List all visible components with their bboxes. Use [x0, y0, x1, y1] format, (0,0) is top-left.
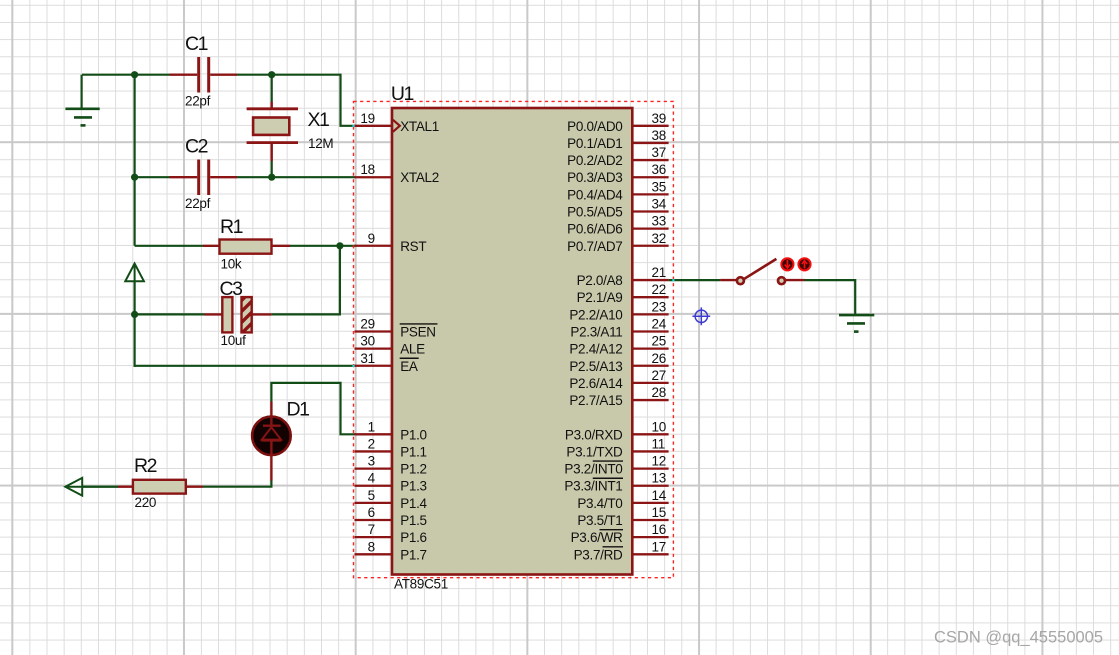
ground (right)	[839, 314, 874, 317]
pin 32 P0.7/AD7	[632, 245, 668, 247]
svg-text:C3: C3	[220, 278, 243, 300]
output terminal (left arrow)	[65, 478, 82, 496]
svg-text:P1.2: P1.2	[400, 462, 427, 477]
svg-text:12: 12	[652, 454, 666, 469]
svg-text:22pf: 22pf	[185, 94, 211, 109]
pin 33 P0.6/AD6	[632, 227, 668, 229]
crystal X1	[271, 102, 273, 109]
pin 35 P0.4/AD4	[632, 193, 668, 195]
switch SW1	[720, 279, 736, 281]
pin 31 EA	[355, 365, 393, 367]
svg-text:10uf: 10uf	[221, 333, 247, 348]
pin 34 P0.5/AD5	[632, 210, 668, 212]
wire corner to XTAL1 pin	[341, 74, 356, 126]
pin 17 P3.7/RD	[632, 553, 668, 555]
wire RST junction drop	[271, 246, 340, 315]
junction node D	[268, 174, 275, 181]
svg-text:24: 24	[652, 316, 667, 331]
wire C3 net left (y=314.4)	[135, 313, 205, 315]
junction node A	[131, 71, 138, 78]
svg-text:C1: C1	[185, 33, 208, 55]
svg-text:P3.2/INT0: P3.2/INT0	[564, 462, 622, 477]
pin 2 P1.1	[355, 450, 393, 452]
svg-text:14: 14	[652, 488, 667, 503]
wire switch to ground	[805, 280, 856, 315]
svg-text:XTAL1: XTAL1	[400, 119, 439, 134]
svg-text:R2: R2	[134, 455, 157, 477]
svg-text:P1.5: P1.5	[400, 513, 427, 528]
svg-text:P1.0: P1.0	[400, 427, 427, 442]
svg-text:P3.5/T1: P3.5/T1	[577, 513, 622, 528]
svg-text:P3.3/INT1: P3.3/INT1	[564, 479, 622, 494]
wire XTAL2 net (y=177.5)	[135, 176, 170, 178]
svg-text:35: 35	[652, 179, 666, 194]
ground (left)	[80, 75, 82, 109]
svg-text:X1: X1	[308, 109, 330, 131]
junction node C	[131, 174, 138, 181]
svg-text:33: 33	[652, 214, 666, 229]
pin 3 P1.2	[355, 467, 393, 469]
svg-text:P2.3/A11: P2.3/A11	[570, 324, 622, 339]
pin 18 XTAL2	[355, 176, 393, 178]
svg-text:P0.3/AD3: P0.3/AD3	[567, 170, 622, 185]
svg-text:4: 4	[368, 471, 376, 486]
svg-text:21: 21	[652, 265, 666, 280]
wire crossing marks	[352, 125, 354, 127]
svg-text:R1: R1	[220, 216, 243, 238]
pin 30 ALE	[355, 347, 393, 349]
switch actuator (up arrow)	[798, 258, 810, 270]
wire crystal top drop	[271, 75, 273, 102]
resistor R1	[203, 245, 220, 247]
svg-text:P2.5/A13: P2.5/A13	[569, 359, 622, 374]
pin 24 P2.3/A11	[632, 330, 668, 332]
pin 11 P3.1/TXD	[632, 450, 668, 452]
svg-text:P1.7: P1.7	[400, 547, 427, 562]
svg-text:19: 19	[360, 111, 374, 126]
capacitor C2	[170, 176, 198, 178]
selection box (red dashed)	[354, 101, 674, 577]
wire EA net (y=366)	[134, 365, 356, 367]
wire crystal bottom drop	[271, 161, 273, 177]
svg-text:13: 13	[652, 471, 666, 486]
wire P1.0 to D1	[271, 383, 355, 434]
svg-text:D1: D1	[287, 399, 310, 421]
svg-text:22pf: 22pf	[185, 196, 211, 211]
svg-text:P0.7/AD7: P0.7/AD7	[567, 239, 622, 254]
svg-text:P3.6/WR: P3.6/WR	[571, 530, 623, 545]
capacitor C3 (electrolytic)	[205, 313, 223, 315]
pin 19 XTAL1	[355, 125, 393, 127]
svg-text:31: 31	[360, 351, 374, 366]
pin 37 P0.2/AD2	[632, 159, 668, 161]
svg-text:P0.1/AD1: P0.1/AD1	[567, 136, 622, 151]
svg-text:P3.1/TXD: P3.1/TXD	[566, 444, 623, 459]
wire power stem	[134, 281, 136, 367]
svg-text:25: 25	[652, 334, 666, 349]
svg-text:11: 11	[652, 436, 665, 451]
pin 39 P0.0/AD0	[632, 125, 668, 127]
wire vertical left bus x=134.6	[134, 74, 136, 246]
svg-text:22: 22	[652, 282, 666, 297]
svg-text:39: 39	[652, 111, 666, 126]
svg-text:P1.4: P1.4	[400, 496, 427, 511]
svg-text:ALE: ALE	[400, 342, 425, 357]
svg-text:P0.6/AD6: P0.6/AD6	[567, 222, 622, 237]
svg-text:1: 1	[368, 419, 375, 434]
svg-text:P1.6: P1.6	[400, 530, 427, 545]
pin 21 P2.0/A8	[632, 279, 668, 281]
pin 10 P3.0/RXD	[632, 433, 668, 435]
svg-text:P3.0/RXD: P3.0/RXD	[565, 427, 623, 442]
svg-text:7: 7	[368, 522, 375, 537]
IC U1 body (AT89C51 microcontroller)	[392, 108, 632, 575]
svg-text:15: 15	[652, 505, 666, 520]
svg-text:P2.2/A10: P2.2/A10	[569, 307, 622, 322]
svg-text:PSEN: PSEN	[400, 324, 436, 339]
pin 13 P3.3/INT1	[632, 485, 668, 487]
capacitor C1	[170, 73, 198, 75]
svg-text:10: 10	[652, 419, 666, 434]
svg-text:P1.3: P1.3	[400, 479, 427, 494]
pin 16 P3.6/WR	[632, 536, 668, 538]
svg-text:XTAL2: XTAL2	[400, 170, 439, 185]
pin 7 P1.6	[355, 536, 393, 538]
svg-text:36: 36	[652, 162, 666, 177]
svg-text:P3.4/T0: P3.4/T0	[577, 496, 622, 511]
pin 15 P3.5/T1	[632, 519, 668, 521]
svg-text:30: 30	[360, 334, 374, 349]
svg-text:2: 2	[368, 436, 375, 451]
junction node E	[336, 242, 343, 249]
svg-text:23: 23	[652, 299, 666, 314]
svg-text:6: 6	[368, 505, 375, 520]
wire RST net (y=246)	[135, 245, 203, 247]
pin 25 P2.4/A12	[632, 347, 668, 349]
LED D1	[252, 417, 291, 456]
pin 26 P2.5/A13	[632, 365, 668, 367]
svg-text:P0.4/AD4: P0.4/AD4	[567, 187, 623, 202]
svg-text:P2.4/A12: P2.4/A12	[569, 342, 622, 357]
pin 22 P2.1/A9	[632, 296, 668, 298]
svg-text:5: 5	[368, 488, 375, 503]
svg-text:C2: C2	[185, 135, 208, 157]
svg-text:CSDN @qq_45550005: CSDN @qq_45550005	[934, 628, 1103, 646]
wire	[237, 176, 356, 178]
svg-text:220: 220	[135, 495, 157, 510]
pin 12 P3.2/INT0	[632, 467, 668, 469]
wire P2.0 to switch	[669, 279, 721, 281]
svg-text:P3.7/RD: P3.7/RD	[574, 547, 623, 562]
svg-text:10k: 10k	[221, 256, 242, 271]
svg-text:P2.1/A9: P2.1/A9	[577, 290, 623, 305]
pin 38 P0.1/AD1	[632, 142, 668, 144]
pin 14 P3.4/T0	[632, 502, 668, 504]
svg-text:P2.0/A8: P2.0/A8	[577, 273, 623, 288]
wire D1 bottom	[203, 481, 271, 487]
wire top net XTAL1 (y=75)	[82, 74, 170, 76]
wire	[290, 245, 356, 247]
resistor R2	[118, 486, 133, 488]
svg-text:P2.7/A15: P2.7/A15	[569, 393, 622, 408]
pin 9 RST	[355, 245, 393, 247]
pin 4 P1.3	[355, 485, 393, 487]
svg-text:27: 27	[652, 368, 666, 383]
pin 1 P1.0	[355, 433, 393, 435]
svg-text:28: 28	[652, 385, 666, 400]
svg-text:P2.6/A14: P2.6/A14	[569, 376, 623, 391]
svg-text:37: 37	[652, 145, 666, 160]
pin 8 P1.7	[355, 553, 393, 555]
svg-text:RST: RST	[400, 239, 426, 254]
svg-text:29: 29	[360, 316, 374, 331]
svg-text:38: 38	[652, 128, 666, 143]
svg-text:12M: 12M	[308, 136, 333, 151]
svg-text:32: 32	[652, 231, 666, 246]
switch actuator (down arrow)	[781, 258, 793, 270]
pin 5 P1.4	[355, 502, 393, 504]
svg-text:P0.5/AD5: P0.5/AD5	[567, 205, 622, 220]
svg-text:EA: EA	[400, 359, 418, 374]
svg-text:8: 8	[368, 539, 375, 554]
svg-text:P0.2/AD2: P0.2/AD2	[567, 153, 622, 168]
wire R2 to terminal	[65, 486, 118, 488]
svg-text:34: 34	[652, 197, 667, 212]
pin 6 P1.5	[355, 519, 393, 521]
svg-text:U1: U1	[391, 83, 414, 105]
origin marker (blue crosshair)	[695, 310, 707, 322]
wire	[237, 74, 341, 76]
svg-text:16: 16	[652, 522, 666, 537]
pin 29 PSEN	[355, 330, 393, 332]
junction node F	[131, 311, 138, 318]
pin 27 P2.6/A14	[632, 382, 668, 384]
svg-text:P1.1: P1.1	[400, 444, 427, 459]
power terminal (up arrow)	[125, 264, 144, 282]
svg-text:9: 9	[368, 231, 375, 246]
svg-text:P0.0/AD0: P0.0/AD0	[567, 119, 622, 134]
svg-text:18: 18	[360, 162, 374, 177]
svg-text:17: 17	[652, 539, 666, 554]
svg-text:26: 26	[652, 351, 666, 366]
svg-text:3: 3	[368, 454, 375, 469]
pin 23 P2.2/A10	[632, 313, 668, 315]
pin 36 P0.3/AD3	[632, 176, 668, 178]
svg-text:AT89C51: AT89C51	[394, 576, 448, 591]
junction node B	[268, 71, 275, 78]
pin 28 P2.7/A15	[632, 399, 668, 401]
